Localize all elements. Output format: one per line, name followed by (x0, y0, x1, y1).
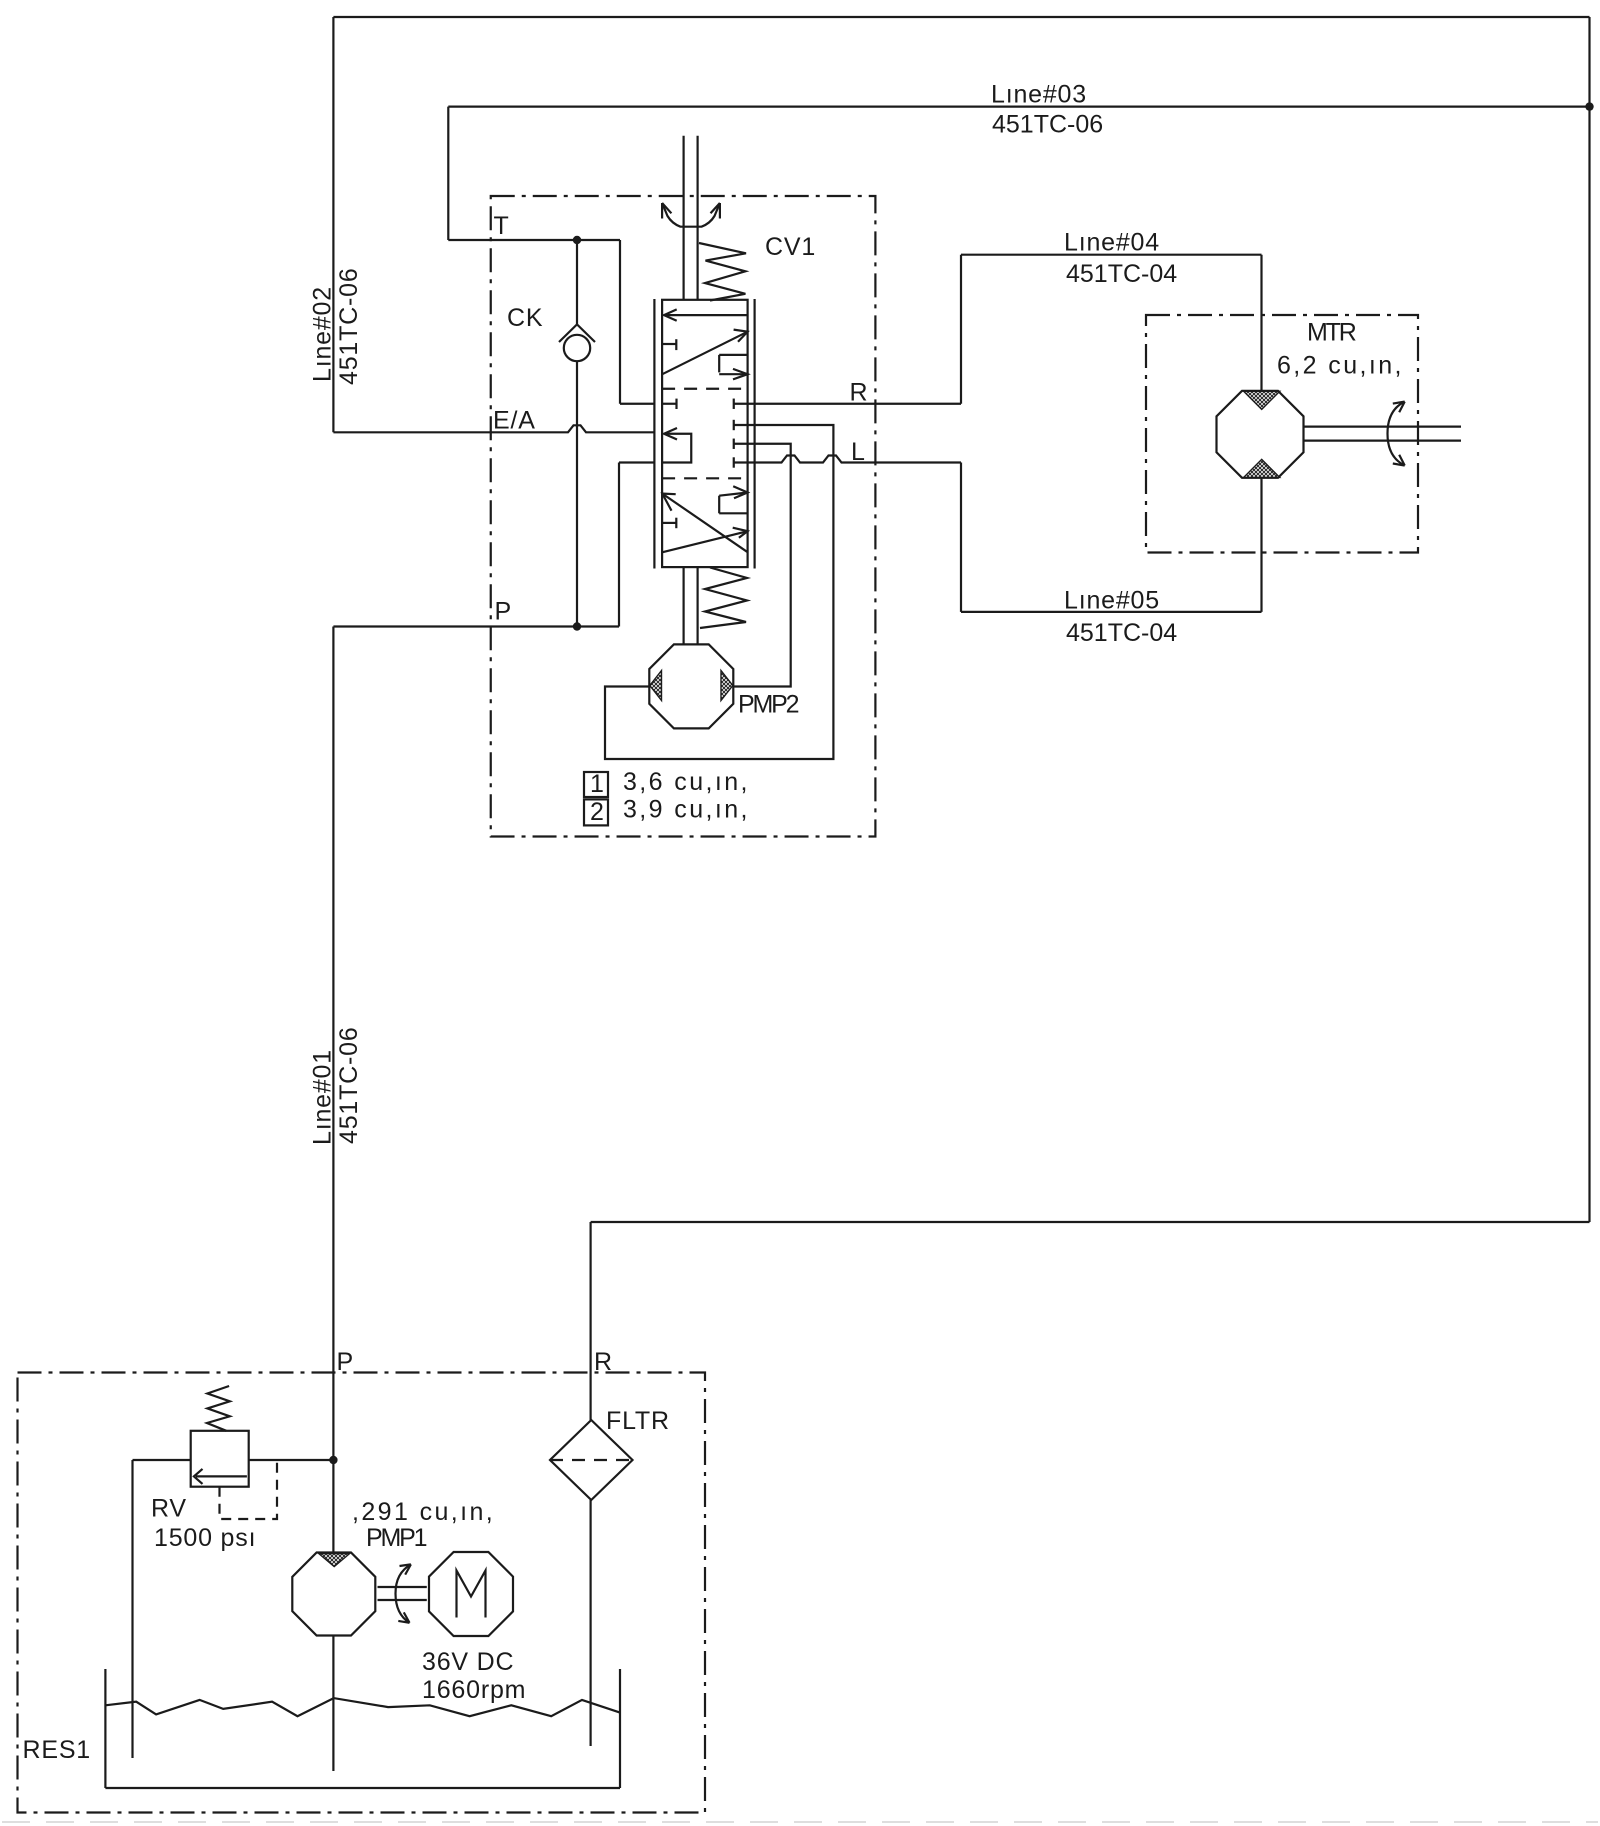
svg-text:Lıne#02: Lıne#02 (309, 286, 337, 382)
svg-text:1: 1 (590, 770, 605, 798)
svg-text:3,9 cu,ın,: 3,9 cu,ın, (623, 796, 750, 824)
svg-text:P: P (495, 598, 512, 626)
svg-text:Lıne#03: Lıne#03 (991, 81, 1087, 109)
svg-text:451TC-06: 451TC-06 (992, 111, 1103, 139)
svg-text:P: P (337, 1348, 354, 1376)
svg-text:FLTR: FLTR (606, 1407, 670, 1435)
svg-text:6,2 cu,ın,: 6,2 cu,ın, (1277, 352, 1404, 380)
svg-text:2: 2 (590, 798, 605, 826)
svg-text:R: R (594, 1348, 613, 1376)
svg-text:L: L (851, 438, 866, 466)
svg-text:PMP1: PMP1 (366, 1524, 427, 1552)
svg-text:451TC-04: 451TC-04 (1066, 619, 1177, 647)
svg-text:MTR: MTR (1307, 319, 1356, 347)
svg-text:1500 psı: 1500 psı (154, 1524, 256, 1552)
svg-text:T: T (494, 212, 510, 240)
svg-text:Lıne#01: Lıne#01 (309, 1049, 337, 1145)
svg-text:451TC-06: 451TC-06 (335, 1026, 363, 1144)
svg-text:,291 cu,ın,: ,291 cu,ın, (352, 1498, 495, 1526)
svg-text:RES1: RES1 (23, 1736, 92, 1764)
svg-text:CV1: CV1 (765, 233, 816, 261)
svg-text:1660rpm: 1660rpm (422, 1676, 526, 1704)
svg-text:CK: CK (507, 304, 543, 332)
svg-text:Lıne#05: Lıne#05 (1064, 587, 1160, 615)
svg-text:Lıne#04: Lıne#04 (1064, 228, 1160, 256)
svg-text:36V DC: 36V DC (422, 1648, 514, 1676)
svg-text:E/A: E/A (493, 407, 536, 435)
svg-text:451TC-04: 451TC-04 (1066, 260, 1177, 288)
svg-text:3,6 cu,ın,: 3,6 cu,ın, (623, 768, 750, 796)
svg-text:R: R (850, 379, 869, 407)
svg-text:RV: RV (151, 1495, 187, 1523)
svg-text:451TC-06: 451TC-06 (335, 267, 363, 385)
svg-text:PMP2: PMP2 (738, 691, 799, 719)
